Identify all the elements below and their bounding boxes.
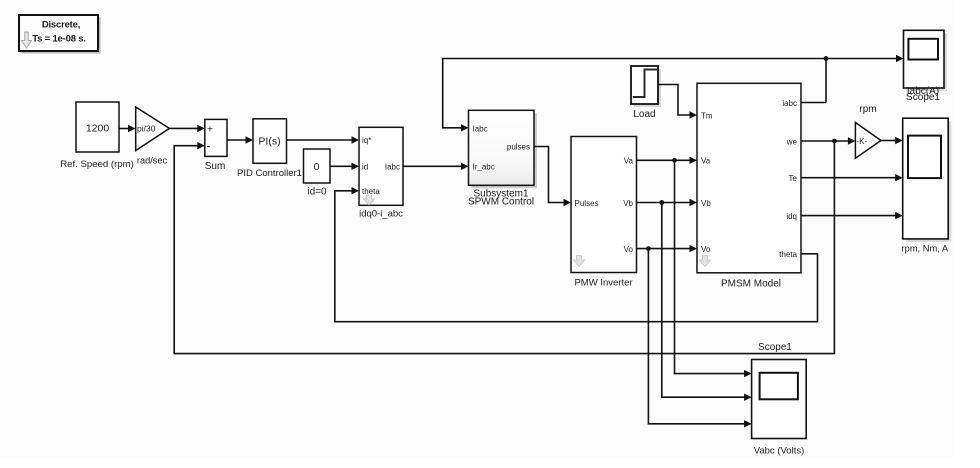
- subsystem PMW Inverter: [571, 137, 637, 289]
- wire gain pi/30 -> Sum plus input: [169, 125, 204, 132]
- wire iabc tap -> Scope1 (Iabc(A)): [826, 55, 904, 62]
- svg-text:idq: idq: [786, 212, 797, 221]
- gray solver arrow icon: [22, 32, 32, 48]
- subsystem idq0-i_abc: [359, 127, 403, 219]
- svg-text:Ref. Speed (rpm): Ref. Speed (rpm): [60, 159, 134, 170]
- svg-text:Vo: Vo: [624, 245, 634, 254]
- junction Vb tap: [659, 200, 664, 205]
- svg-text:Discrete,: Discrete,: [42, 20, 80, 31]
- wire Vb tap -> Vabc scope input 2: [662, 203, 752, 401]
- svg-text:Tm: Tm: [701, 112, 713, 121]
- wire PMW Inverter Vb -> PMSM Vb: [637, 199, 698, 206]
- svg-text:0: 0: [314, 161, 320, 173]
- wire PMSM iabc output up to tap: [801, 59, 826, 103]
- subsystem PMSM Model: [697, 83, 801, 289]
- svg-text:rad/sec: rad/sec: [137, 156, 168, 166]
- wire 0 -> idq0-i_abc id input: [330, 163, 359, 170]
- svg-text:id=0: id=0: [307, 187, 327, 198]
- wire iabc tap -> Subsystem1 Iabc input (top feedback line): [443, 59, 826, 132]
- svg-text:Vb: Vb: [623, 199, 633, 208]
- gain rpm (-K-): [855, 104, 881, 158]
- wire PID Controller1 -> idq0-i_abc iq* input: [287, 136, 360, 143]
- svg-text:SPWM Control: SPWM Control: [468, 197, 534, 208]
- svg-text:pi/30: pi/30: [137, 124, 156, 134]
- junction iabc tap: [824, 56, 829, 61]
- svg-text:1200: 1200: [86, 123, 110, 135]
- junction we tap: [832, 139, 837, 144]
- svg-text:PI(s): PI(s): [258, 136, 280, 148]
- svg-text:pulses: pulses: [507, 143, 530, 152]
- step source Load: [631, 66, 661, 120]
- junction Vo tap: [646, 246, 651, 251]
- svg-text:rpm, Nm, A: rpm, Nm, A: [902, 244, 949, 254]
- svg-text:rpm: rpm: [859, 104, 876, 115]
- wire PMSM Te -> scope rpm,Nm,A input 2: [801, 174, 903, 181]
- wire PMSM theta -> idq0-i_abc theta input (theta feedback): [335, 187, 818, 322]
- wire PMW Inverter Vo -> PMSM Vo: [637, 245, 698, 252]
- svg-text:Ts = 1e-08 s.: Ts = 1e-08 s.: [32, 34, 85, 45]
- svg-text:idq0-i_abc: idq0-i_abc: [359, 209, 403, 220]
- scope rpm, Nm, A: [902, 118, 952, 253]
- svg-text:Va: Va: [624, 157, 634, 166]
- wire we tap -> Sum minus input (speed feedback): [174, 141, 834, 354]
- wire PMSM we -> gain rpm: [801, 137, 855, 144]
- wire Sum -> PID Controller1: [227, 136, 253, 143]
- svg-text:-K-: -K-: [857, 137, 868, 146]
- svg-text:+: +: [207, 124, 213, 135]
- svg-text:Iabc: Iabc: [385, 162, 400, 171]
- svg-text:Te: Te: [789, 174, 798, 183]
- svg-text:Va: Va: [701, 157, 711, 166]
- scope Vabc (Volts): [752, 342, 807, 457]
- svg-text:Vo: Vo: [701, 245, 711, 254]
- svg-text:Vabc (Volts): Vabc (Volts): [754, 446, 805, 457]
- wire PMW Inverter Va -> PMSM Va: [637, 157, 698, 164]
- svg-text:PMSM Model: PMSM Model: [721, 279, 781, 290]
- svg-text:Iabc: Iabc: [473, 124, 488, 133]
- block PID Controller1 PI(s): [237, 119, 302, 179]
- svg-text:we: we: [786, 138, 798, 147]
- svg-text:id: id: [362, 162, 368, 171]
- block Ref. Speed (rpm) constant 1200: [60, 102, 134, 170]
- wire 1200 -> gain pi/30: [119, 125, 136, 132]
- svg-text:PID Controller1: PID Controller1: [237, 168, 302, 179]
- svg-text:-: -: [207, 139, 211, 153]
- svg-text:Scope1: Scope1: [758, 342, 792, 353]
- svg-text:Scope1: Scope1: [906, 92, 940, 103]
- svg-text:PMW Inverter: PMW Inverter: [574, 278, 632, 289]
- wire gain rpm -> scope rpm,Nm,A input 1: [881, 137, 903, 144]
- scope Iabc(A) / Scope1 (top right): [904, 30, 948, 103]
- wire PMSM idq -> scope rpm,Nm,A input 3: [801, 212, 903, 219]
- svg-text:Sum: Sum: [205, 161, 226, 172]
- svg-text:theta: theta: [779, 250, 797, 259]
- gain pi/30: [136, 107, 170, 166]
- svg-text:iq*: iq*: [362, 136, 371, 145]
- wire Load -> PMSM Tm input: [658, 85, 697, 119]
- svg-text:Vb: Vb: [701, 199, 711, 208]
- svg-text:Load: Load: [633, 109, 655, 120]
- wire Vo tap -> Vabc scope input 3: [648, 249, 751, 428]
- constant block 0 (id=0): [304, 149, 331, 198]
- annotation Discrete Ts box: [19, 15, 101, 54]
- wire Subsystem1 pulses -> PMW Inverter Pulses input: [534, 147, 571, 207]
- subsystem Subsystem1 SPWM Control: [468, 110, 537, 207]
- svg-text:iabc: iabc: [782, 99, 797, 108]
- wire Va tap -> Vabc scope input 1: [675, 160, 752, 377]
- svg-text:Ir_abc: Ir_abc: [473, 162, 495, 171]
- svg-text:Pulses: Pulses: [575, 199, 599, 208]
- wire idq0-i_abc Iabc -> Subsystem1 Ir_abc input: [403, 163, 469, 170]
- sum block Sum: [205, 119, 227, 172]
- junction Va tap: [672, 158, 677, 163]
